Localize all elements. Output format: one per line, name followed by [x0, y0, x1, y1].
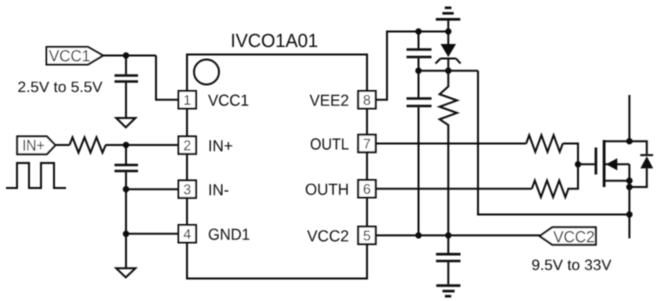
net flag VCC1 [47, 47, 104, 65]
resistor R2 (gate-source) [440, 71, 457, 236]
node IN+/C2 junction [123, 142, 129, 148]
node Q1 source [626, 178, 632, 184]
pin 5 box [358, 227, 376, 245]
net flag IN+ [17, 136, 55, 154]
pin 1 label VCC1 [208, 95, 248, 106]
wire corner to pin 1 [156, 56, 179, 100]
body diode D2 [629, 141, 653, 187]
ground (triangle) below C1 [116, 118, 135, 127]
wire mid rail to source return [478, 71, 629, 215]
wire junction to pin 4 [126, 233, 179, 235]
node VCC2 / C4 leg [415, 232, 421, 238]
capacitor C3 [407, 32, 432, 71]
pin 4 label GND1 [209, 229, 250, 240]
pin 6 label OUTH [306, 184, 348, 195]
wire pin 7 to R3 [376, 143, 527, 145]
IC label IVCO1A01 [232, 34, 317, 48]
negative-rail ground (inverted bars) [436, 8, 461, 32]
pin 2 box [179, 136, 197, 154]
pin 3 label IN- [210, 184, 229, 195]
node IN- junction [123, 186, 129, 192]
wire junction to pin 3 [126, 188, 179, 190]
node mid rail / R2 [445, 68, 451, 74]
node GND1 junction [123, 231, 129, 237]
resistor R4 (OUTH gate) [532, 181, 569, 198]
pin 8 box [358, 91, 376, 109]
wire R4 to gate node [567, 164, 578, 189]
pin 7 label OUTL [311, 138, 349, 149]
node VCC1/C1 junction [123, 52, 129, 58]
node Q1 drain [626, 138, 632, 144]
pin 7 box [358, 135, 376, 153]
pin 5 label VCC2 [307, 230, 348, 241]
pin 3 box [179, 180, 197, 198]
node gate junction [575, 161, 581, 167]
wire R1 to pin 2 [106, 144, 179, 146]
wire pin 5 to VCC2 flag [376, 234, 540, 236]
square-wave input symbol [6, 163, 66, 188]
wire VCC1 flag to corner [103, 55, 156, 57]
pin 6 box [358, 180, 376, 198]
wire R3 to gate node [563, 144, 578, 165]
pin 4 box [179, 225, 197, 243]
capacitor C4 [407, 71, 432, 236]
node VEE2 rail / D1 [445, 28, 451, 34]
label 2.5V to 5.5V [18, 82, 102, 93]
resistor R3 (OUTL gate) [526, 135, 563, 152]
node VCC2 / C5 [445, 232, 451, 238]
node diode return [626, 184, 632, 190]
wire down to ground [125, 234, 127, 268]
node VEE2 rail / C3 [415, 28, 421, 34]
resistor R1 (series input) [70, 137, 106, 152]
wire down to GND1 row [125, 189, 127, 234]
capacitor C5 [436, 235, 461, 284]
pin-1 marker circle [194, 60, 219, 85]
node source return [626, 211, 632, 217]
wire pin 8 to VEE2 rail [376, 32, 449, 100]
IC U1 body [187, 55, 367, 279]
pin 1 box [179, 91, 197, 109]
label 9.5V to 33V [532, 260, 611, 271]
wire mid rail [419, 70, 479, 72]
wire pin 6 to R4 [376, 188, 532, 190]
ground (earth) below C5 [436, 286, 460, 297]
pin 2 label IN+ [210, 140, 233, 151]
wire gate node to Q1 gate [578, 163, 595, 165]
transistor Q1 (N-MOSFET) [596, 95, 630, 238]
node mid rail / C4 [415, 68, 421, 74]
ground (triangle) input chain [116, 268, 135, 277]
zener diode D1 [436, 32, 461, 71]
pin 8 label VEE2 [310, 95, 349, 106]
capacitor C2 [115, 147, 139, 189]
net flag VCC2 [540, 227, 596, 244]
capacitor C1 [115, 58, 139, 119]
wire IN+ flag to R1 [55, 144, 69, 146]
